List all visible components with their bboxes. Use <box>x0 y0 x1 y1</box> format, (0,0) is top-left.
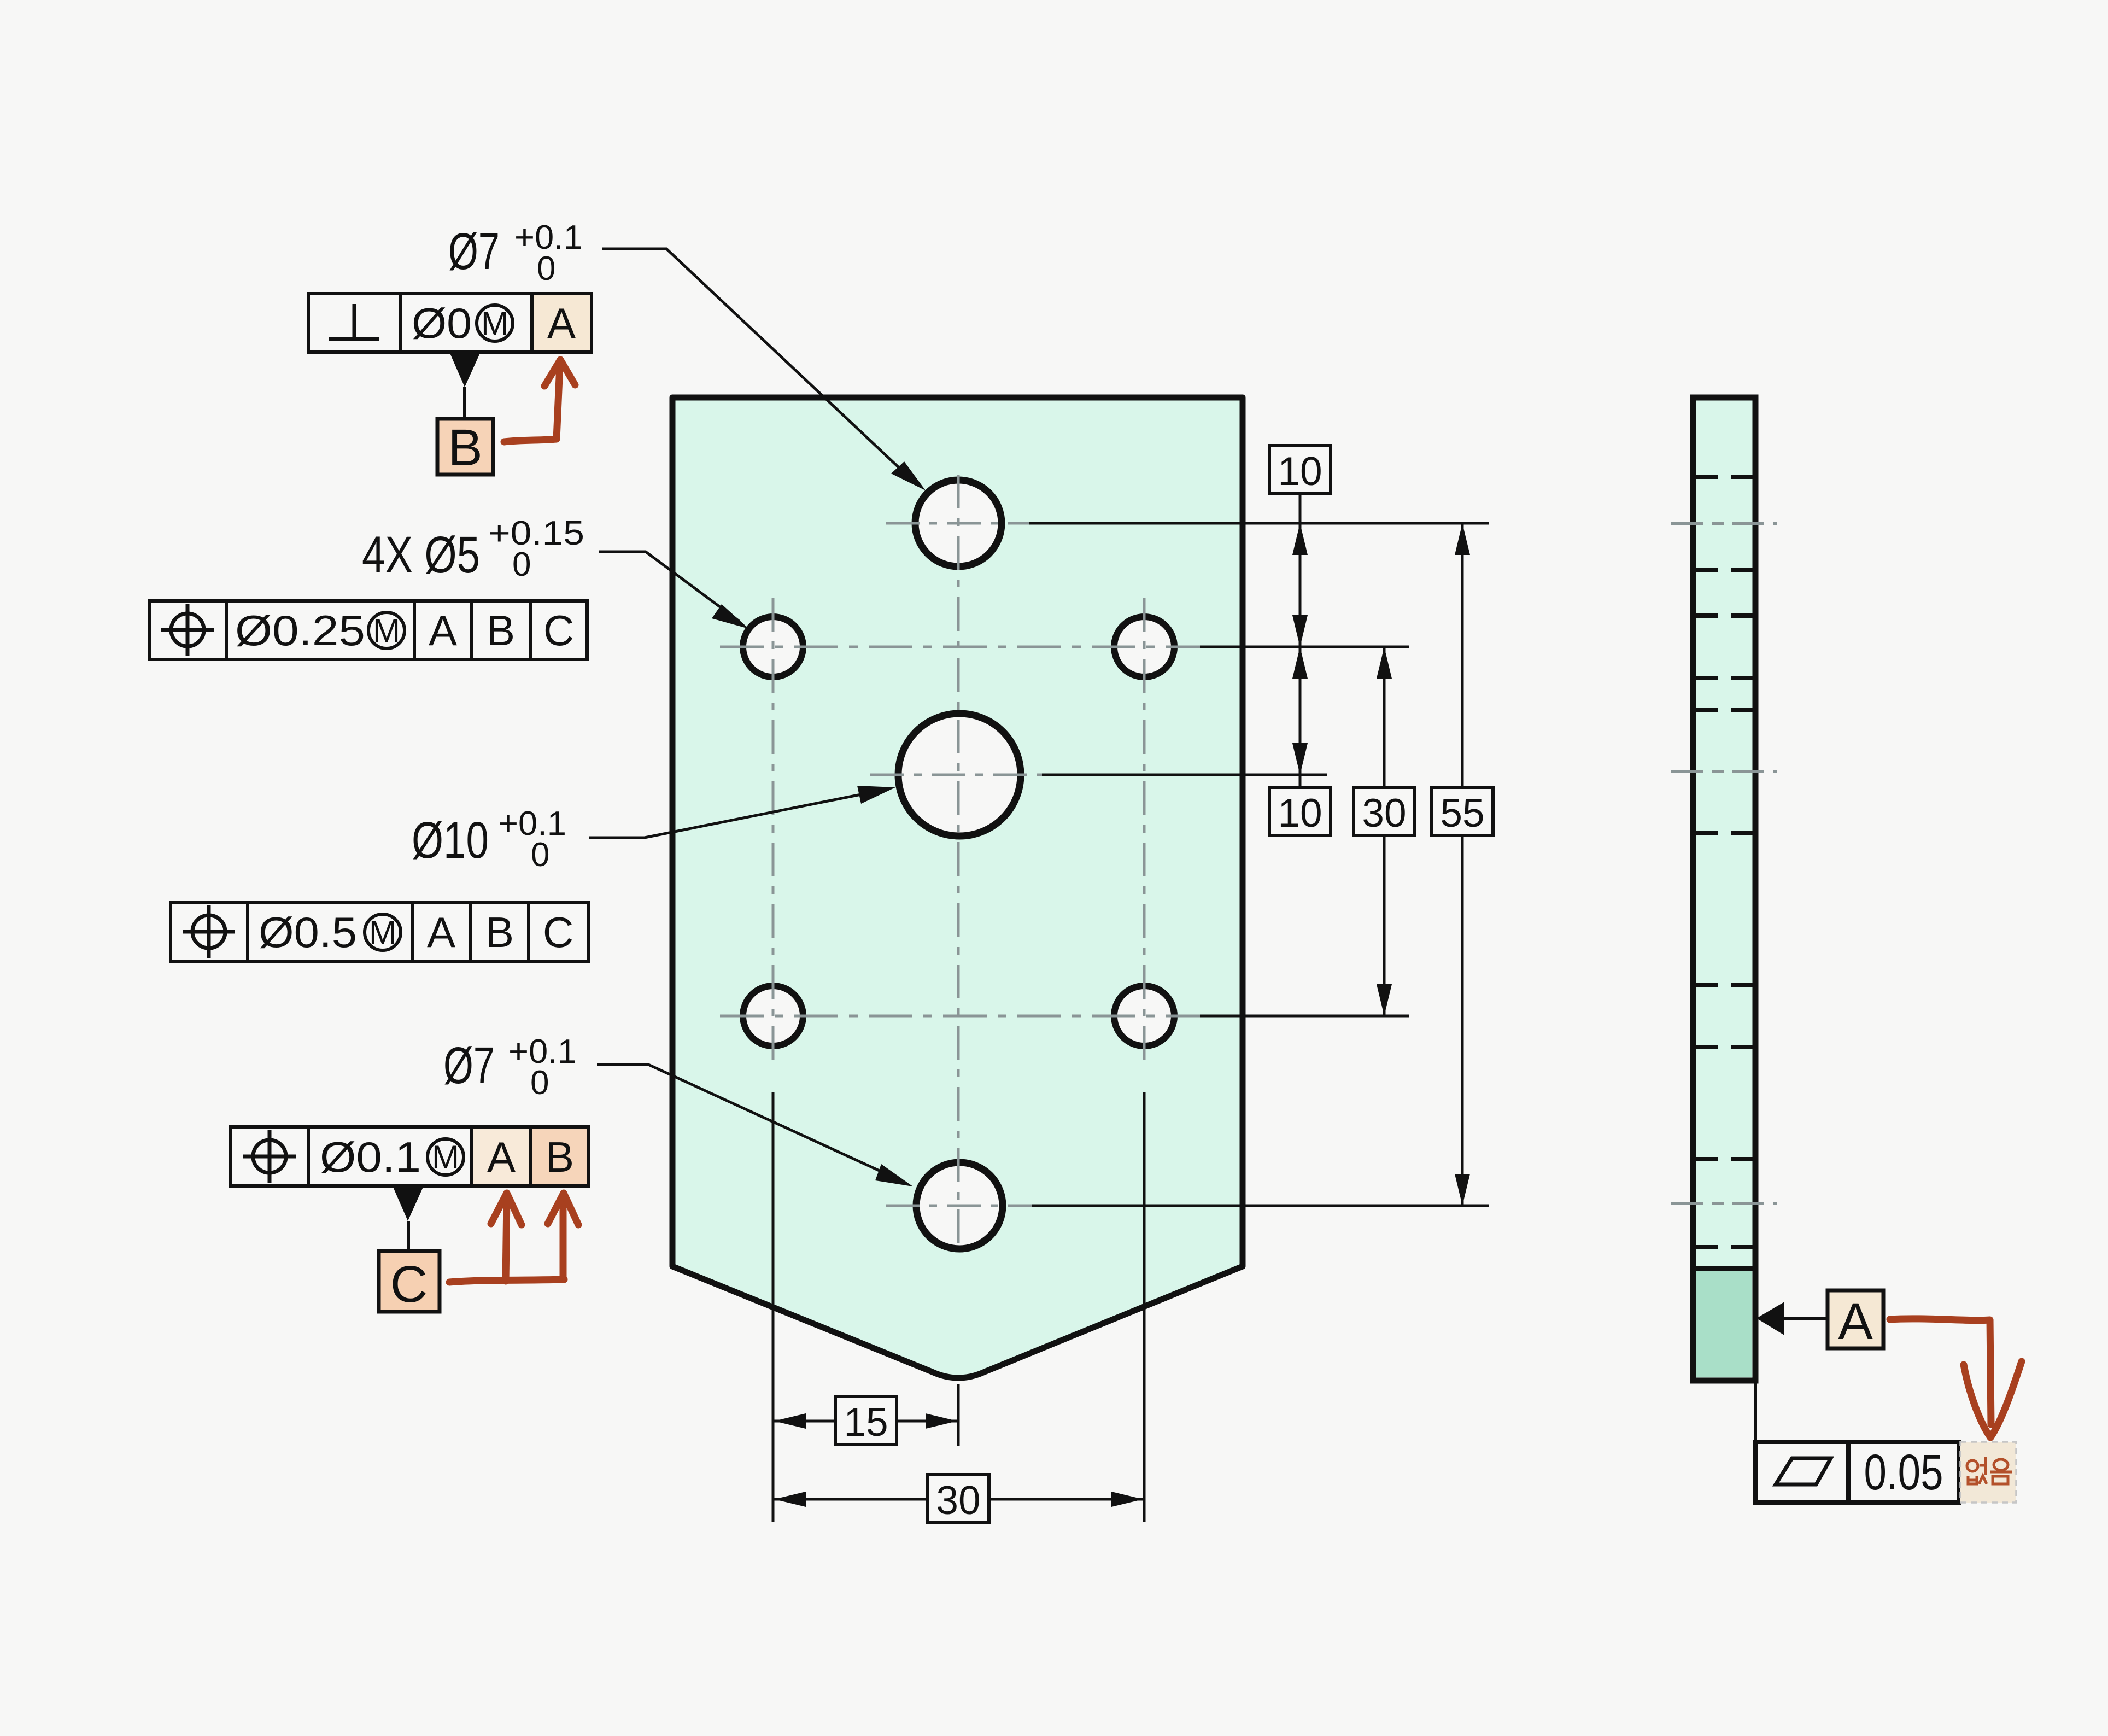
hidden line hole D10 upper edge <box>1696 708 1753 712</box>
hole D5 lower-right <box>1114 986 1174 1046</box>
svg-text:15: 15 <box>844 1400 888 1445</box>
extension line left column down <box>772 1092 775 1522</box>
horizontal centerline lower small holes row <box>720 1015 1200 1018</box>
extension line from center hole <box>1042 774 1327 776</box>
FCF position 0.25 frame <box>149 601 587 659</box>
svg-text:C: C <box>543 908 573 956</box>
side view body <box>1693 398 1755 1381</box>
hidden line hole D10 lower edge <box>1696 831 1753 835</box>
vertical centerline right column <box>1143 598 1146 1065</box>
position symbol <box>183 905 235 958</box>
dimension 30 vertical: line <box>1383 647 1386 787</box>
dimension 10 lower: line <box>1299 647 1302 787</box>
centerline D7 bottom in side view <box>1671 1202 1777 1205</box>
syllable eum <box>1994 1459 2008 1470</box>
extension line middle column down <box>957 1384 960 1446</box>
hidden line lower D5 row upper edge <box>1696 983 1753 987</box>
flatness symbol parallelogram <box>1776 1458 1831 1484</box>
dimension 15: boxed label <box>835 1396 897 1445</box>
svg-text:Ø7: Ø7 <box>448 223 500 280</box>
hidden line hole D7 bottom lower edge <box>1696 1245 1753 1249</box>
red annotation arrow B to A <box>504 365 560 442</box>
centerline D10 in side view <box>1671 770 1777 773</box>
horizontal centerline center hole <box>870 774 1042 776</box>
hidden line hole D7 top upper edge <box>1696 475 1753 479</box>
svg-text:0: 0 <box>512 546 531 583</box>
svg-text:Ø0.25: Ø0.25 <box>235 606 365 654</box>
leader to bottom hole <box>597 1065 903 1182</box>
centerline D7 top in side view <box>1671 522 1777 525</box>
perpendicularity symbol <box>353 304 356 339</box>
svg-text:Ø0.5: Ø0.5 <box>259 908 357 956</box>
svg-text:Ø7: Ø7 <box>443 1037 495 1095</box>
hidden line upper D5 row lower edge <box>1696 676 1753 680</box>
hidden line upper D5 row upper edge <box>1696 613 1753 618</box>
connector line side view to flatness FCF <box>1754 1381 1757 1442</box>
svg-text:Ø0: Ø0 <box>412 299 472 347</box>
extension line right column down <box>1143 1092 1146 1522</box>
extension line from bottom hole <box>1032 1205 1489 1207</box>
syllable eops <box>1967 1460 1978 1471</box>
svg-text:Ø0.1: Ø0.1 <box>320 1133 421 1181</box>
svg-text:0: 0 <box>531 836 549 874</box>
hole D5 lower-left <box>743 986 803 1046</box>
hole D7 top <box>915 480 1002 566</box>
korean text eobseum (none) drawn as vector strokes <box>1967 1457 2012 1484</box>
leader to upper-left small hole <box>599 552 739 621</box>
horizontal centerline top hole <box>886 522 1029 525</box>
svg-text:55: 55 <box>1440 791 1484 835</box>
FCF position 0.1 frame <box>231 1127 589 1186</box>
svg-text:C: C <box>390 1255 428 1313</box>
svg-text:0: 0 <box>530 1064 549 1102</box>
dimension 30 horizontal: boxed label <box>928 1475 989 1523</box>
svg-text:A: A <box>427 908 455 956</box>
svg-text:A: A <box>487 1133 516 1181</box>
vertical centerline middle column <box>957 475 960 1253</box>
svg-text:A: A <box>547 299 576 347</box>
svg-text:10: 10 <box>1278 791 1322 835</box>
datum B box <box>437 419 493 475</box>
position symbol <box>161 604 214 656</box>
svg-text:30: 30 <box>936 1478 980 1523</box>
hole D5 upper-left <box>743 617 803 677</box>
datum A feature triangle <box>1756 1302 1784 1335</box>
svg-text:A: A <box>429 606 457 654</box>
datum A box <box>1828 1290 1883 1348</box>
red annotation arrows C to A and B <box>449 1279 564 1282</box>
datum feature triangle under FCF4 <box>393 1187 423 1221</box>
hidden line lower D5 row lower edge <box>1696 1045 1753 1049</box>
datum A cell highlight <box>534 295 590 350</box>
svg-text:B: B <box>546 1133 574 1181</box>
hole D5 upper-right <box>1114 617 1174 677</box>
datum A cell highlight <box>473 1129 529 1184</box>
FCF perpendicularity frame <box>308 294 592 352</box>
svg-text:30: 30 <box>1362 791 1406 835</box>
datum A highlighted surface strip <box>1696 1270 1752 1377</box>
svg-text:B: B <box>487 606 515 654</box>
svg-text:10: 10 <box>1278 449 1322 494</box>
hole D10 center <box>898 714 1021 836</box>
leader to top hole <box>602 249 916 484</box>
FCF flatness frame <box>1755 1442 1959 1503</box>
vertical centerline left column <box>772 598 775 1065</box>
svg-text:B: B <box>485 908 514 956</box>
svg-text:A: A <box>1838 1293 1873 1351</box>
red annotation arrow A to flatness frame <box>1890 1319 1991 1424</box>
dimension 15: line <box>773 1420 835 1423</box>
dimension 30 horizontal: line <box>773 1498 928 1501</box>
dimension 10 upper: boxed label <box>1269 446 1331 494</box>
hole D7 bottom <box>916 1162 1003 1249</box>
svg-text:B: B <box>448 419 482 477</box>
datum B cell highlight <box>532 1129 587 1184</box>
svg-text:Ø10: Ø10 <box>412 811 489 869</box>
position symbol <box>243 1130 296 1183</box>
dimension 10 lower: boxed label <box>1269 787 1331 835</box>
extension line from top hole <box>1029 522 1489 525</box>
extension line from lower small holes <box>1200 1015 1409 1018</box>
plate body front view <box>672 398 1243 1378</box>
extension line from upper small holes <box>1200 646 1409 648</box>
FCF position 0.5 frame <box>171 903 588 961</box>
svg-text:+0.15: +0.15 <box>488 515 584 552</box>
separator line of highlighted strip <box>1693 1266 1755 1271</box>
dimension 55 vertical: line <box>1461 523 1464 787</box>
datum feature triangle under FCF1 <box>450 353 480 387</box>
svg-text:0.05: 0.05 <box>1864 1445 1943 1500</box>
highlighted empty datum cell (none) <box>1960 1442 2016 1503</box>
hidden line hole D7 top lower edge <box>1696 568 1753 572</box>
hidden line hole D7 bottom upper edge <box>1696 1157 1753 1161</box>
svg-text:C: C <box>543 606 574 654</box>
dimension 30 vertical: boxed label <box>1354 787 1415 835</box>
horizontal centerline bottom hole <box>886 1205 1032 1207</box>
horizontal centerline upper small holes row <box>720 646 1200 648</box>
datum C box <box>379 1251 440 1312</box>
svg-text:4X Ø5: 4X Ø5 <box>362 526 480 584</box>
dimension 10 upper: line <box>1299 493 1302 647</box>
svg-text:0: 0 <box>537 250 555 288</box>
dimension 55 vertical: boxed label <box>1432 787 1493 835</box>
leader to center hole <box>589 790 886 838</box>
